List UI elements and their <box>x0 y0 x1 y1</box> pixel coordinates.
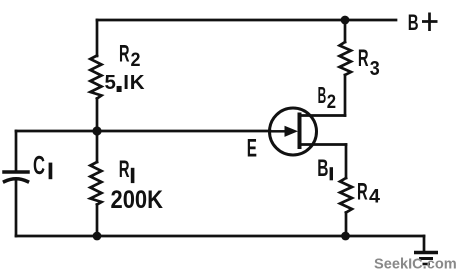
capacitor C1 <box>4 172 28 182</box>
wire: B1 lead horizontal from base bar <box>301 143 346 146</box>
resistor R2 <box>90 56 101 99</box>
transistor Q1 unijunction <box>270 108 317 155</box>
svg-text:2: 2 <box>131 50 141 71</box>
svg-text:E: E <box>247 135 257 163</box>
resistor R3 <box>340 42 352 75</box>
wire: bottom rail to ground <box>423 236 426 252</box>
wire: R4 to bottom rail <box>345 213 348 237</box>
resistor R1 <box>90 162 101 205</box>
wire: R1 to bottom rail <box>96 205 99 237</box>
label B+ <box>408 10 438 35</box>
wire: top B+ rail <box>97 19 396 22</box>
pin label B1 <box>317 155 333 182</box>
label R1 <box>119 156 135 183</box>
wire: node A down to R1 <box>96 131 99 162</box>
svg-text:B: B <box>408 10 419 35</box>
wire: node A horizontal to emitter <box>16 130 270 133</box>
node: B+ rail / R3 junction <box>341 16 350 25</box>
label R3 <box>358 45 380 80</box>
label R4 <box>357 179 380 208</box>
node: R4 / bottom rail junction <box>341 232 350 241</box>
svg-text:2: 2 <box>327 92 336 113</box>
svg-text:R: R <box>357 179 368 206</box>
resistor R4 <box>340 178 352 213</box>
ground <box>414 253 438 265</box>
label C1 <box>33 150 52 180</box>
wire: R2 to node A <box>96 99 99 132</box>
wire: bottom ground rail <box>16 235 424 238</box>
wire: left branch down to C1 <box>15 131 18 171</box>
svg-text:5.IK: 5.IK <box>105 71 145 94</box>
wire: B2 lead horizontal to base bar <box>301 114 345 117</box>
wire: C1 to bottom rail <box>15 181 18 236</box>
node: R1 / bottom rail junction <box>93 232 102 241</box>
svg-text:R: R <box>119 156 130 183</box>
svg-text:C: C <box>33 150 45 180</box>
wire: R3 down to B2 corner <box>344 75 347 116</box>
svg-text:3: 3 <box>370 57 380 80</box>
wire: top rail down to R2 <box>96 20 99 56</box>
svg-text:B: B <box>317 155 328 182</box>
label R2 <box>119 41 141 71</box>
svg-text:4: 4 <box>369 187 380 208</box>
svg-text:200K: 200K <box>111 186 164 214</box>
svg-text:R: R <box>358 45 369 72</box>
svg-text:B: B <box>318 82 327 108</box>
svg-text:SeekIC.com: SeekIC.com <box>374 257 457 273</box>
pin label B2 <box>318 82 336 113</box>
node A: R2/R1/C1/E junction <box>92 126 101 135</box>
svg-text:R: R <box>119 41 130 68</box>
wire: B1 corner down to R4 <box>345 145 348 179</box>
wire: B+ rail down to R3 <box>344 20 347 42</box>
